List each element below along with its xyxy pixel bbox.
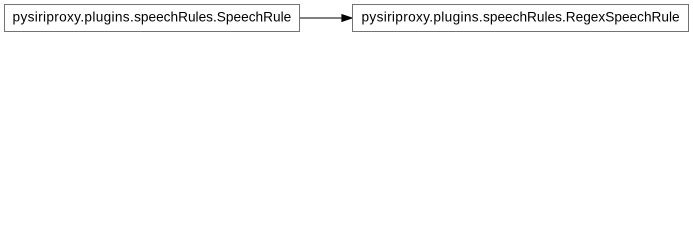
arrowhead: [342, 15, 352, 22]
class box SpeechRule: [5, 5, 300, 32]
svg-text:pysiriproxy.plugins.speechRule: pysiriproxy.plugins.speechRules.SpeechRu…: [13, 9, 292, 24]
class box RegexSpeechRule: [353, 5, 689, 32]
svg-text:pysiriproxy.plugins.speechRule: pysiriproxy.plugins.speechRules.RegexSpe…: [362, 9, 680, 24]
background: [0, 0, 693, 37]
inheritance arrow wire: [300, 15, 352, 22]
